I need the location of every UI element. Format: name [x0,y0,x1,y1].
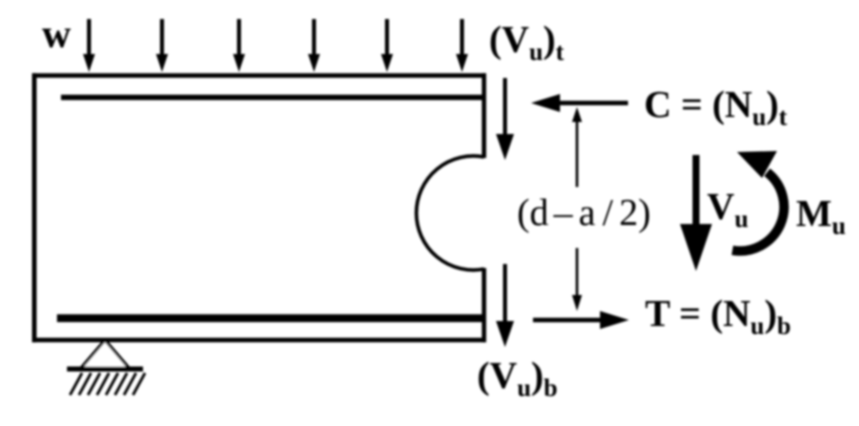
distributed load arrow 3 [233,19,245,72]
compression force arrow C [531,94,628,112]
beam top edge [32,73,486,78]
beam right edge upper segment [482,73,486,158]
svg-text:C = (Nu)t: C = (Nu)t [644,84,788,131]
beam right edge lower segment [482,268,486,342]
pin support triangle [81,340,129,368]
tension force arrow T [533,311,629,329]
distributed load arrow 2 [156,19,168,72]
distributed load arrow 6 [456,19,468,72]
svg-text:(Vu)t: (Vu)t [489,19,565,66]
svg-text:T = (Nu)b: T = (Nu)b [645,293,791,340]
distributed load arrow 5 [381,19,393,72]
beam bottom edge [32,338,486,343]
dimension arrow lower (points down) [572,248,582,311]
svg-text:w: w [42,11,71,56]
svg-text:(Vu)b: (Vu)b [477,355,558,402]
shear crack notch arc [416,156,484,270]
moment curved arrow Mu [732,151,784,251]
distributed load arrow 1 [83,19,95,72]
svg-text:Vu: Vu [707,186,748,233]
beam left edge [32,73,37,342]
top shear arrow (Vu)t [496,78,514,160]
top reinforcement bar [61,95,486,100]
distributed load arrow 4 [308,19,320,72]
pin support hatching [70,373,145,395]
bottom shear arrow (Vu)b [496,264,514,347]
svg-text:(d–a/2): (d–a/2) [517,192,651,234]
pin support ground line [67,367,143,372]
dimension arrow upper (points up) [572,107,582,187]
svg-text:Mu: Mu [796,193,846,240]
bottom reinforcement bar [57,314,486,322]
shear resultant thick arrow Vu [680,155,712,271]
